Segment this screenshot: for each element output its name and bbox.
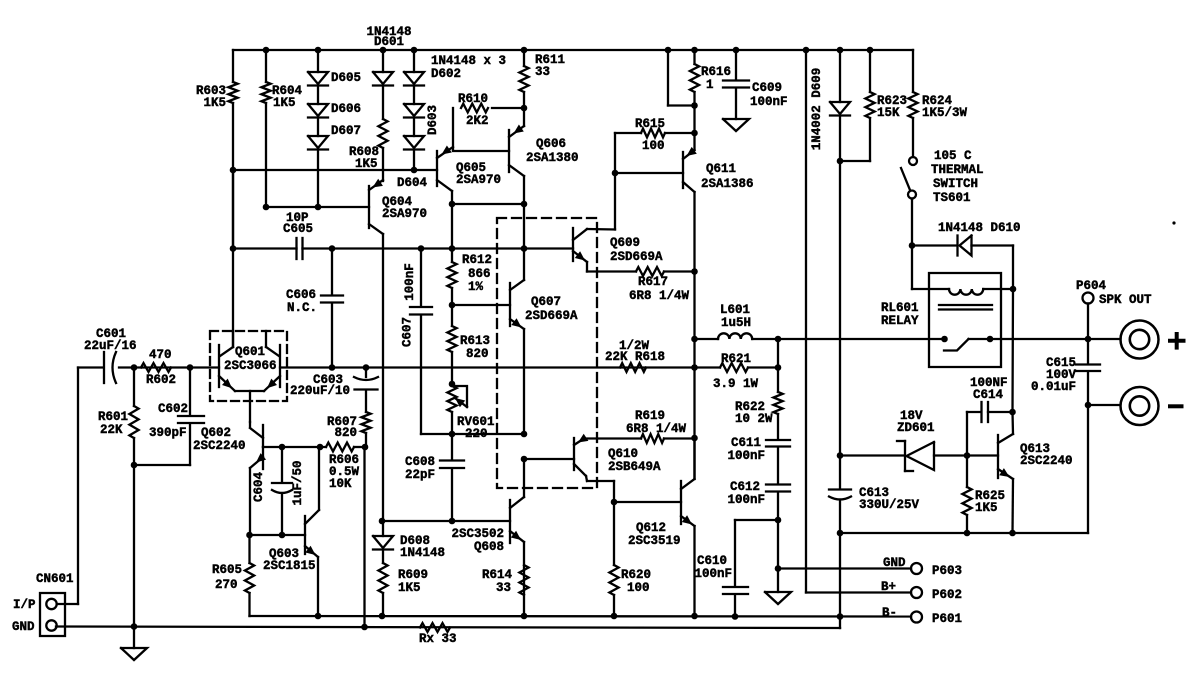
transistor Q606 <box>453 108 579 204</box>
svg-text:100nF: 100nF <box>727 493 765 507</box>
svg-text:C606: C606 <box>286 288 316 302</box>
svg-text:470: 470 <box>149 348 172 362</box>
transistor Q610 <box>524 434 661 481</box>
resistor R616 <box>690 50 731 133</box>
resistor R614 <box>482 565 529 595</box>
svg-text:2SC3519: 2SC3519 <box>628 534 681 548</box>
svg-text:10K: 10K <box>329 477 352 491</box>
resistor R622 <box>735 336 783 439</box>
svg-text:6R8 1/4W: 6R8 1/4W <box>629 289 690 303</box>
svg-text:Q606: Q606 <box>536 137 566 151</box>
relay RL601 <box>881 273 1013 367</box>
capacitor C614 <box>967 376 1013 456</box>
resistor R619 <box>584 409 695 443</box>
diode D602 <box>404 50 506 86</box>
capacitor C611 <box>727 436 790 484</box>
svg-text:100nF: 100nF <box>403 263 417 301</box>
svg-text:2SA970: 2SA970 <box>456 173 501 187</box>
svg-text:1K5: 1K5 <box>398 581 421 595</box>
svg-text:2SC3066: 2SC3066 <box>224 359 277 373</box>
resistor R613 <box>447 305 490 387</box>
svg-text:2SA970: 2SA970 <box>382 207 427 221</box>
svg-text:D602: D602 <box>431 67 461 81</box>
svg-text:390pF: 390pF <box>149 426 187 440</box>
diode D606 <box>308 87 361 118</box>
svg-text:2SB649A: 2SB649A <box>608 460 661 474</box>
transistor Q612 <box>628 438 695 616</box>
svg-text:2SA1380: 2SA1380 <box>526 151 579 165</box>
svg-text:D606: D606 <box>331 102 361 116</box>
resistor R603 <box>196 50 238 347</box>
capacitor C607 <box>401 249 433 435</box>
svg-text:P603: P603 <box>932 564 962 578</box>
diode D609 <box>810 50 850 164</box>
transistor Q608 <box>379 460 524 616</box>
diode D603 <box>404 87 440 135</box>
svg-text:D601: D601 <box>374 35 404 49</box>
svg-text:1N4148: 1N4148 <box>400 546 445 560</box>
svg-text:33: 33 <box>496 581 511 595</box>
diode D608 <box>373 521 445 563</box>
terminal P601 <box>882 606 962 626</box>
svg-text:1uF/50: 1uF/50 <box>291 460 305 505</box>
svg-text:15K: 15K <box>877 106 900 120</box>
capacitor C612 <box>727 480 790 592</box>
svg-text:2SA1386: 2SA1386 <box>701 177 754 191</box>
svg-text:1N4148 D610: 1N4148 D610 <box>938 221 1021 235</box>
terminal SPK plus <box>1121 321 1184 359</box>
wire main line <box>280 364 695 371</box>
svg-text:Q601: Q601 <box>235 345 265 359</box>
transistor Q607 <box>452 249 578 435</box>
svg-text:22uF/16: 22uF/16 <box>84 339 137 353</box>
zener ZD601 <box>840 409 998 471</box>
thermal switch TS601 <box>901 149 984 246</box>
svg-text:820: 820 <box>466 347 489 361</box>
svg-text:1N4148 x 3: 1N4148 x 3 <box>431 54 506 68</box>
terminal P603 <box>883 556 962 578</box>
resistor R601 <box>98 368 139 628</box>
capacitor C610 <box>694 520 778 617</box>
svg-text:R617: R617 <box>638 275 668 289</box>
svg-text:D604: D604 <box>397 176 428 190</box>
resistor R617 <box>587 267 695 303</box>
svg-text:B+: B+ <box>881 580 896 594</box>
svg-text:2K2: 2K2 <box>466 114 489 128</box>
svg-text:R612: R612 <box>462 253 492 267</box>
svg-text:100: 100 <box>642 139 665 153</box>
wire input line <box>78 364 219 371</box>
svg-text:B-: B- <box>882 606 897 620</box>
svg-text:C607: C607 <box>401 317 415 347</box>
wire ground rail <box>56 623 840 630</box>
svg-text:1N4002 D609: 1N4002 D609 <box>810 68 824 151</box>
wire bias rail (rail2) <box>230 167 437 174</box>
svg-text:1K5: 1K5 <box>203 96 226 110</box>
wire D609 column <box>837 161 844 459</box>
wire Q611 collector column <box>691 192 698 478</box>
svg-text:R616: R616 <box>701 65 731 79</box>
svg-text:D603: D603 <box>426 105 440 135</box>
svg-text:100nF: 100nF <box>694 567 732 581</box>
wire R606 node to gnd rail <box>363 447 365 627</box>
wire VAS rail (rail3) <box>230 245 573 252</box>
transistor Q613 <box>998 412 1073 533</box>
svg-text:C608: C608 <box>405 455 435 469</box>
transistor Q603 <box>263 447 319 616</box>
svg-text:R609: R609 <box>398 568 428 582</box>
svg-text:P601: P601 <box>932 612 962 626</box>
svg-text:270: 270 <box>215 578 238 592</box>
relay contact <box>941 336 993 351</box>
svg-text:6R8 1/4W: 6R8 1/4W <box>626 422 687 436</box>
svg-text:2SD669A: 2SD669A <box>525 309 578 323</box>
svg-text:C604: C604 <box>252 472 266 503</box>
wire output rail <box>250 613 912 620</box>
capacitor C606 <box>286 249 343 368</box>
svg-text:Q602: Q602 <box>201 426 231 440</box>
wire speaker minus <box>1088 405 1120 533</box>
svg-text:Q610: Q610 <box>608 447 638 461</box>
resistor R625 <box>962 456 1005 534</box>
diode D607 <box>308 119 361 207</box>
svg-text:2SC2240: 2SC2240 <box>193 439 246 453</box>
wire D610 node <box>909 242 957 289</box>
capacitor C603 <box>290 368 378 413</box>
transistor Q609 <box>573 228 663 272</box>
wire Q604 collector to D608 <box>382 234 384 521</box>
dashed package box <box>497 218 597 488</box>
wire RV601 bottom link <box>421 431 527 463</box>
svg-text:1K5: 1K5 <box>975 501 998 515</box>
resistor R623 <box>840 50 907 161</box>
wire zener rail <box>840 530 1088 537</box>
svg-text:R621: R621 <box>721 352 751 366</box>
svg-text:R602: R602 <box>146 373 176 387</box>
resistor R606 <box>326 443 360 491</box>
resistor R621 <box>713 352 759 391</box>
wire Q603 base <box>246 532 305 539</box>
resistor R602 <box>141 348 176 387</box>
svg-text:100nF: 100nF <box>750 95 788 109</box>
resistor R604 <box>261 50 302 207</box>
capacitor C615 <box>1031 339 1100 408</box>
svg-text:100nF: 100nF <box>727 449 765 463</box>
resistor Rx <box>419 623 457 646</box>
svg-text:Q609: Q609 <box>610 236 640 250</box>
resistor R607 <box>327 412 371 447</box>
resistor R620 <box>609 502 651 616</box>
resistor R624 <box>908 50 967 157</box>
resistor R608 <box>349 87 388 171</box>
svg-text:Q608: Q608 <box>474 540 504 554</box>
svg-text:R614: R614 <box>482 568 513 582</box>
svg-text:C614: C614 <box>973 388 1004 402</box>
svg-text:C610: C610 <box>697 554 727 568</box>
inductor L601 <box>695 303 945 339</box>
transistor Q605 <box>437 146 501 205</box>
svg-text:866: 866 <box>468 267 491 281</box>
resistor R618 22K <box>605 339 665 372</box>
svg-text:SPK OUT: SPK OUT <box>1099 293 1152 307</box>
wire R616 bypass link <box>668 50 695 106</box>
svg-text:R620: R620 <box>621 568 651 582</box>
wire Q610 collector to Q612 base <box>587 481 681 505</box>
capacitor C608 <box>405 434 464 521</box>
wire ground rail riser <box>839 617 841 629</box>
svg-text:1%: 1% <box>468 280 484 294</box>
svg-text:22K R618: 22K R618 <box>605 350 665 364</box>
svg-text:10 2W: 10 2W <box>735 412 773 426</box>
svg-text:820: 820 <box>334 426 357 440</box>
svg-text:R613: R613 <box>460 334 490 348</box>
svg-text:RELAY: RELAY <box>881 314 919 328</box>
svg-text:R615: R615 <box>635 117 665 131</box>
capacitor C601 <box>84 327 137 383</box>
svg-text:2SC3502: 2SC3502 <box>451 527 504 541</box>
svg-text:1K5/3W: 1K5/3W <box>922 106 968 120</box>
svg-text:105 C: 105 C <box>934 149 972 163</box>
diode D604 <box>397 119 428 190</box>
svg-text:D607: D607 <box>331 124 361 138</box>
transistor Q601 dual <box>210 331 287 422</box>
resistor R612 <box>447 249 492 309</box>
svg-text:1u5H: 1u5H <box>721 316 751 330</box>
scan speck <box>1172 221 1175 224</box>
diode D610 <box>938 221 1021 256</box>
ground under C612 <box>765 592 791 604</box>
ground under input <box>121 627 147 661</box>
trimmer RV601 <box>447 386 494 441</box>
svg-text:C609: C609 <box>752 81 782 95</box>
svg-text:SWITCH: SWITCH <box>933 177 978 191</box>
wire gnd to P603 <box>778 567 911 569</box>
svg-text:R619: R619 <box>635 409 665 423</box>
svg-text:3.9 1W: 3.9 1W <box>713 377 759 391</box>
wire input riser <box>77 368 79 605</box>
terminal SPK minus <box>1121 387 1182 425</box>
svg-text:R601: R601 <box>98 410 128 424</box>
svg-text:220uF/10: 220uF/10 <box>290 384 350 398</box>
resistor R605 <box>212 535 254 616</box>
wire relay coil drive <box>1009 246 1016 416</box>
wire R606 node <box>263 444 368 451</box>
svg-text:L601: L601 <box>720 303 750 317</box>
svg-text:33: 33 <box>535 65 550 79</box>
svg-text:1K5: 1K5 <box>273 96 296 110</box>
diode D605 <box>308 50 361 86</box>
svg-text:RL601: RL601 <box>881 301 919 315</box>
svg-text:P602: P602 <box>932 588 962 602</box>
resistor R610 <box>453 92 524 150</box>
svg-text:CN601: CN601 <box>36 572 74 586</box>
svg-text:2SC1815: 2SC1815 <box>263 559 316 573</box>
resistor R609 <box>378 563 428 616</box>
svg-text:R605: R605 <box>212 563 242 577</box>
wire R621 line <box>695 364 782 371</box>
svg-text:100: 100 <box>627 581 650 595</box>
svg-text:TS601: TS601 <box>933 191 971 205</box>
transistor Q611 <box>615 133 754 192</box>
svg-text:C602: C602 <box>158 402 188 416</box>
svg-text:Q612: Q612 <box>636 521 666 535</box>
capacitor C613 <box>829 456 920 537</box>
ground under C609 <box>723 119 749 131</box>
diode D601 <box>366 25 411 86</box>
svg-text:2SD669A: 2SD669A <box>610 250 663 264</box>
svg-text:THERMAL: THERMAL <box>931 163 984 177</box>
svg-text:GND: GND <box>883 556 906 570</box>
svg-text:Q607: Q607 <box>531 295 561 309</box>
capacitor C602 <box>134 368 204 466</box>
wire Q605-Q606 collectors <box>449 201 528 249</box>
svg-text:330U/25V: 330U/25V <box>859 498 920 512</box>
capacitor C604 <box>252 447 305 535</box>
svg-text:Q611: Q611 <box>706 162 736 176</box>
resistor R611 <box>519 50 565 111</box>
svg-text:ZD601: ZD601 <box>897 421 935 435</box>
terminal P602 <box>881 580 962 602</box>
svg-text:P604: P604 <box>1076 279 1107 293</box>
wire top supply rail <box>233 49 913 51</box>
wire C613 column lower <box>839 533 841 617</box>
svg-text:R610: R610 <box>458 92 488 106</box>
svg-text:1: 1 <box>706 78 714 92</box>
transistor Q604 <box>369 170 427 234</box>
svg-text:0.01uF: 0.01uF <box>1031 380 1076 394</box>
svg-text:C612: C612 <box>730 480 760 494</box>
capacitor C605 <box>233 170 313 259</box>
svg-text:C611: C611 <box>731 436 761 450</box>
transistor Q602 <box>193 422 266 535</box>
wire Q604 base <box>263 204 369 211</box>
svg-text:I/P: I/P <box>13 598 36 612</box>
svg-text:22K: 22K <box>100 423 123 437</box>
svg-text:N.C.: N.C. <box>287 301 317 315</box>
svg-text:22pF: 22pF <box>405 468 435 482</box>
capacitor C609 <box>723 50 788 119</box>
svg-text:C605: C605 <box>283 222 313 236</box>
wire speaker line <box>969 336 1121 343</box>
wire Q602 base <box>262 446 264 448</box>
svg-text:GND: GND <box>12 620 35 634</box>
terminal P604 <box>1076 279 1152 339</box>
junction dots on top rail <box>263 47 874 54</box>
connector CN601 <box>12 572 78 636</box>
svg-text:2SC2240: 2SC2240 <box>1020 454 1073 468</box>
svg-text:Rx 33: Rx 33 <box>419 632 457 646</box>
wire B+ column <box>806 50 911 593</box>
resistor R615 <box>612 117 698 230</box>
svg-text:D605: D605 <box>331 71 361 85</box>
